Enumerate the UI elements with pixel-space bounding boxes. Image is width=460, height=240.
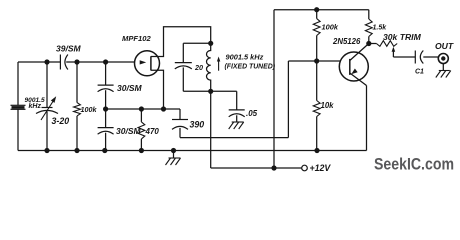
svg-text:+12V: +12V — [310, 163, 332, 173]
svg-text:1.5k: 1.5k — [373, 24, 388, 31]
svg-text:kHz: kHz — [29, 103, 42, 110]
svg-text:.05: .05 — [246, 109, 258, 118]
svg-text:SeekIC.com: SeekIC.com — [374, 155, 454, 174]
svg-text:2N5126: 2N5126 — [332, 37, 361, 46]
svg-text:10k: 10k — [321, 101, 335, 110]
svg-text:390: 390 — [190, 119, 205, 129]
svg-text:100k: 100k — [322, 22, 339, 31]
svg-text:30k TRIM: 30k TRIM — [383, 32, 422, 42]
svg-text:MPF102: MPF102 — [122, 34, 151, 43]
svg-text:(FIXED TUNED): (FIXED TUNED) — [225, 64, 276, 71]
svg-text:30/SM: 30/SM — [116, 126, 141, 136]
svg-text:470: 470 — [145, 127, 160, 136]
svg-text:C1: C1 — [415, 68, 424, 75]
svg-text:9001.5 kHz: 9001.5 kHz — [226, 53, 264, 62]
svg-text:100k: 100k — [81, 105, 98, 114]
svg-text:30/SM: 30/SM — [117, 83, 142, 93]
svg-text:OUT: OUT — [435, 41, 454, 51]
svg-text:20: 20 — [194, 63, 203, 72]
svg-text:39/SM: 39/SM — [56, 44, 81, 54]
svg-text:3-20: 3-20 — [52, 116, 70, 126]
